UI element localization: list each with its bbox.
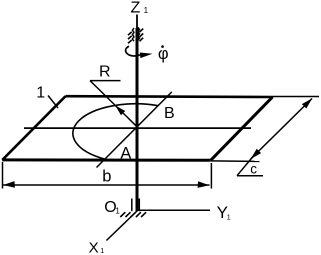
svg-text:Z: Z	[131, 0, 141, 16]
svg-text:A: A	[120, 145, 131, 163]
svg-text:b: b	[102, 168, 111, 186]
svg-text:1: 1	[100, 248, 104, 255]
svg-text:1: 1	[144, 6, 149, 15]
svg-text:c: c	[250, 161, 257, 176]
svg-text:1: 1	[115, 206, 120, 215]
svg-text:1: 1	[227, 215, 231, 222]
svg-text:X: X	[89, 239, 99, 255]
svg-text:φ: φ	[158, 45, 169, 63]
svg-text:1: 1	[36, 85, 45, 102]
svg-text:R: R	[99, 64, 111, 81]
svg-text:B: B	[164, 105, 175, 122]
